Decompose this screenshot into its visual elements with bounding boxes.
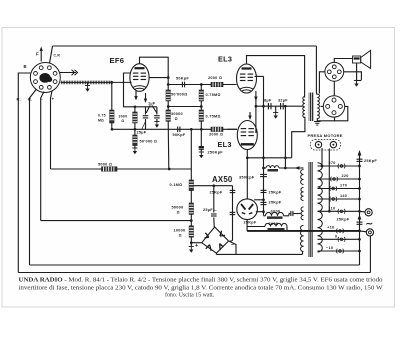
OT secondary bottom to ground <box>316 118 318 121</box>
socket output arrow <box>60 72 76 74</box>
wire R pin 2 down (minus) <box>41 92 44 221</box>
svg-text:8µF: 8µF <box>264 99 272 103</box>
junction anode/50000 <box>167 83 170 86</box>
EL3 lower grid wire <box>228 128 238 130</box>
tap 0 <box>318 238 360 240</box>
ground 1uF <box>154 121 159 123</box>
tube EL3 lower <box>237 121 257 150</box>
wire field row left <box>264 167 267 169</box>
svg-text:EL3: EL3 <box>218 55 232 64</box>
junction rail <box>255 105 258 108</box>
chain wire 3 <box>190 214 192 225</box>
svg-text:Ω: Ω <box>175 117 178 121</box>
wire AX50 right upper <box>254 199 263 201</box>
svg-text:EF6: EF6 <box>110 56 125 65</box>
PT primary seg2 <box>301 187 304 191</box>
resistor chain top <box>190 129 192 180</box>
resistor 50000 ohm cathode <box>134 129 136 135</box>
wire bus C bottom <box>18 272 370 274</box>
chain wire 4 <box>190 237 192 246</box>
wire B pin left <box>18 73 31 273</box>
svg-text:3000: 3000 <box>119 115 128 119</box>
wire bus B bottom <box>30 264 360 266</box>
wire EF6 grid (shielded lead) <box>61 81 132 83</box>
svg-text:140: 140 <box>340 194 347 198</box>
EF6 anode top cap <box>140 57 169 84</box>
junction field row <box>262 167 265 170</box>
socket P1 (pickup/mains socket) <box>30 63 60 93</box>
socket speaker <box>325 62 344 81</box>
junction HT/32uF <box>284 156 287 159</box>
wire bridge plus <box>191 242 201 244</box>
wire between sockets <box>333 81 335 95</box>
field socket right wire <box>335 106 348 120</box>
junction presa wire 1 <box>321 165 324 168</box>
svg-text:1µF: 1µF <box>148 102 156 106</box>
electrolytic 25uF ax <box>213 186 215 213</box>
svg-text:−10: −10 <box>326 246 333 250</box>
resistor 5000 ohm <box>102 167 118 171</box>
svg-text:B: B <box>24 64 27 69</box>
svg-text:0.75MΩ: 0.75MΩ <box>206 93 221 97</box>
horn <box>361 50 371 68</box>
ground OT <box>314 121 320 123</box>
wire plus pin down <box>51 91 53 169</box>
capacitor 25KpF axB <box>230 211 236 213</box>
svg-text:Ω: Ω <box>177 210 180 214</box>
resistor 50000 ohm divider <box>167 85 169 91</box>
resistor 2000 ohm lower <box>211 127 223 131</box>
junction bus/250K <box>200 128 203 131</box>
junction grid node <box>110 81 113 84</box>
socket field coil <box>323 96 344 117</box>
resistor 0.75M upper <box>200 85 202 91</box>
wire ax left col <box>232 186 234 241</box>
tube AX50 <box>237 199 258 220</box>
wire cap to PT <box>297 213 301 215</box>
resistor 30000 ohm <box>167 107 169 111</box>
wire rail <box>256 105 303 107</box>
svg-text:25µF: 25µF <box>137 131 147 135</box>
tap 270 <box>318 165 360 167</box>
wire 32uF drop <box>284 106 286 168</box>
svg-text:0.75MΩ: 0.75MΩ <box>206 115 221 119</box>
wire ax left row <box>191 185 232 187</box>
svg-text:30000: 30000 <box>171 112 183 116</box>
1uF pointer <box>152 106 157 114</box>
wire PT bottom left <box>302 252 304 255</box>
svg-text:110: 110 <box>329 207 336 211</box>
wire AX50 right lower <box>256 211 264 213</box>
ground chain <box>189 246 194 248</box>
svg-text:25KpF: 25KpF <box>337 218 350 222</box>
capacitor to PT <box>290 211 292 216</box>
field socket left wire <box>321 105 324 107</box>
choke drop <box>286 227 288 231</box>
capacitor 350KpF <box>260 173 267 175</box>
wire bridge bottom bus <box>216 253 302 255</box>
svg-text:C.R: C.R <box>54 54 61 58</box>
wire bridge minus <box>229 241 236 254</box>
horn driver box <box>353 56 361 63</box>
junction presa wire 2 <box>328 210 331 213</box>
horn ground drop <box>356 63 358 81</box>
contact +10 <box>339 230 342 233</box>
horn ground drop 2 <box>357 80 362 82</box>
svg-text:270: 270 <box>329 161 336 165</box>
wire plus row <box>51 168 102 170</box>
svg-text:50'000Ω: 50'000Ω <box>171 93 187 97</box>
EL3 upper under arrow <box>254 97 257 102</box>
svg-text:AX50: AX50 <box>212 175 233 184</box>
tap &#8722;10 <box>318 250 360 252</box>
svg-text:25KpF: 25KpF <box>210 191 223 195</box>
junction divider mid <box>167 105 170 108</box>
wire EL3 lower bottom <box>246 150 248 158</box>
ground speaker <box>354 80 359 82</box>
jack lower bus wire <box>360 230 367 233</box>
wire grid bus <box>111 128 237 130</box>
wire AX50 bottom <box>246 220 248 231</box>
speaker socket left wire <box>319 72 325 94</box>
jack upper <box>360 210 366 213</box>
wire minus bus <box>41 220 192 222</box>
PT primary seg4 <box>301 225 304 230</box>
capacitor 50KpF lower <box>177 127 179 133</box>
power transformer core <box>308 162 312 257</box>
ground between caps <box>275 106 277 112</box>
svg-text:5000 Ω: 5000 Ω <box>98 163 112 167</box>
svg-text:50KpF: 50KpF <box>176 77 189 81</box>
svg-text:25KpF: 25KpF <box>244 221 257 225</box>
svg-text:0: 0 <box>335 235 337 239</box>
resistor 0.75M lower <box>200 107 202 111</box>
svg-text:+10: +10 <box>327 225 335 230</box>
wire bridge bottom stub <box>215 253 217 254</box>
output transformer primary <box>303 97 305 101</box>
junction 32uF drop <box>284 105 287 108</box>
EL3 screen wire <box>255 75 264 77</box>
svg-text:+: + <box>52 97 55 102</box>
wire B+ column <box>263 76 265 215</box>
junction B+ column top <box>262 105 265 108</box>
EF6 under-tube lead 2 <box>145 93 147 100</box>
wire HT to OT primary <box>292 117 305 158</box>
junction minus bus <box>190 219 193 222</box>
capacitor 25KpF axA <box>230 189 236 191</box>
ground 50000 <box>132 147 137 149</box>
svg-text:50KpF: 50KpF <box>173 133 186 137</box>
EF6 under-tube lead 1 <box>135 91 137 97</box>
svg-text:+: + <box>195 243 198 249</box>
wire top rail drop to output transformer <box>315 46 317 94</box>
wire HT row <box>247 157 291 159</box>
svg-text:25KpF: 25KpF <box>269 191 282 195</box>
wire anode row <box>168 84 236 86</box>
svg-text:fono. Uscita 15 watt.: fono. Uscita 15 watt. <box>165 291 215 298</box>
svg-text:25KpF: 25KpF <box>364 159 377 163</box>
wire EF6 cathode <box>124 73 158 107</box>
wire AX50 to choke <box>247 226 265 228</box>
svg-text:0.75: 0.75 <box>98 114 106 118</box>
svg-text:EL3: EL3 <box>218 140 232 149</box>
wire EF6 grid leak drop B <box>111 82 113 110</box>
svg-text:25KpF: 25KpF <box>269 201 282 205</box>
wire R pin 1 down <box>30 89 37 265</box>
svg-text:F: F <box>36 52 39 57</box>
output transformer core <box>309 93 314 122</box>
speaker socket top wire <box>334 59 352 63</box>
heater bus thick <box>247 230 359 232</box>
svg-text:Ω: Ω <box>179 233 182 237</box>
EL3 parallel bus <box>255 91 257 133</box>
capacitor 250KpF <box>200 129 202 146</box>
junction bus/chain <box>190 128 193 131</box>
svg-text:invertitore di fase, tensione: invertitore di fase, tensione placca 230… <box>19 284 384 291</box>
arrow to PT primary <box>295 166 300 170</box>
field coil bumps <box>266 166 270 168</box>
svg-text:32µF: 32µF <box>278 99 288 103</box>
wire 3000 top <box>134 107 136 112</box>
capacitor 1uF <box>156 107 158 115</box>
OT secondary top wire <box>315 94 318 95</box>
svg-text:Ω: Ω <box>122 119 125 123</box>
svg-text:25µF—: 25µF— <box>203 208 217 212</box>
capacitor 50KpF upper <box>181 82 183 88</box>
capacitor 25KpF mid right <box>357 221 363 223</box>
presa wire 2 <box>328 149 330 212</box>
svg-text:170: 170 <box>340 184 347 188</box>
tap 170 <box>318 188 360 190</box>
capacitor 32uF <box>280 103 282 109</box>
tap 220 <box>318 178 360 180</box>
svg-text:220: 220 <box>342 174 349 178</box>
wire AX50 cathode riser <box>246 158 248 199</box>
svg-text:50'000 Ω: 50'000 Ω <box>140 140 158 144</box>
svg-text:UNDA RADIO - Mod. R. 84/1 - Te: UNDA RADIO - Mod. R. 84/1 - Telaio R. 4/… <box>19 277 383 284</box>
junction plus corner <box>190 241 193 244</box>
right bus top arrow <box>359 154 361 163</box>
wire field row right <box>279 167 301 169</box>
svg-text:6000: 6000 <box>269 221 279 226</box>
field socket bottom wire <box>317 117 334 121</box>
wire ax col to bridge <box>230 241 233 242</box>
svg-text:10000: 10000 <box>174 229 186 233</box>
wire divider mid row <box>168 106 201 108</box>
ground 250KpF <box>199 151 204 153</box>
junction ax row/25uF <box>212 184 215 187</box>
choke 0000 bumps <box>265 223 271 226</box>
junction bus/3000 <box>134 128 137 131</box>
EF6 screen wire <box>149 77 168 79</box>
svg-text:2000 Ω: 2000 Ω <box>209 133 223 137</box>
svg-text:250KpF: 250KpF <box>208 151 224 155</box>
capacitor 25KpF top right <box>357 158 363 160</box>
PT primary seg3 <box>301 207 303 211</box>
junction HT/EL3 <box>246 156 249 159</box>
svg-text:MΩ: MΩ <box>98 119 104 123</box>
capacitor 8uF <box>267 103 269 109</box>
svg-text:2000 Ω: 2000 Ω <box>208 76 222 80</box>
junction plus/30000 <box>168 168 171 171</box>
resistor 10000 chain <box>189 226 193 237</box>
resistor 2000 ohm upper <box>211 82 223 86</box>
wire 3000 bottom <box>134 123 136 129</box>
resistor 50000 chain <box>189 203 193 214</box>
resistor 0.1M <box>189 180 193 191</box>
resistor 3000 ohm <box>133 112 137 123</box>
wire top rail <box>53 45 317 47</box>
EL3 upper anode to OT <box>247 56 305 98</box>
capacitor 25KpF col1 <box>261 189 267 191</box>
arrow on right bus <box>358 215 362 220</box>
wire plus row cont <box>117 168 191 170</box>
junction field/32uF <box>284 167 287 170</box>
ground under grid lead <box>87 82 89 85</box>
pin F arrow <box>40 50 42 62</box>
svg-text:0.1MΩ: 0.1MΩ <box>170 183 183 187</box>
tap 110 <box>318 210 360 212</box>
PT seg1 top wire <box>301 167 304 169</box>
svg-text:350KpF: 350KpF <box>239 176 255 180</box>
presa motore outline <box>311 140 341 151</box>
speaker socket right wire <box>344 72 362 80</box>
capacitor 25KpF col2 <box>261 201 267 203</box>
wire under 0.75M <box>111 123 113 129</box>
EL3 lower top arrow <box>249 112 251 117</box>
bridge rectifier <box>202 227 229 253</box>
tap 140 <box>318 198 360 200</box>
svg-text:PRESA MOTORE: PRESA MOTORE <box>308 133 343 138</box>
junction cathode/3000 <box>134 105 137 108</box>
junction HT/B+ column <box>262 156 265 159</box>
PT primary seg1 <box>301 170 304 175</box>
junction heater bus right <box>358 230 361 233</box>
junction anode/075 <box>200 83 203 86</box>
junction 075 mid <box>200 105 203 108</box>
svg-text:∼: ∼ <box>366 219 374 229</box>
tube EF6 <box>130 64 149 92</box>
capacitor 25uF <box>145 107 147 115</box>
wire C.R pin to top rail <box>50 46 53 64</box>
chain wire 2 <box>190 191 192 204</box>
wire bus B riser <box>359 154 361 266</box>
presa motore socket 1 <box>315 141 321 147</box>
presa motore socket 2 <box>330 141 336 147</box>
resistor 0.75 Mohm input <box>110 110 114 123</box>
junction bus/0.75M <box>111 128 114 131</box>
choke 6000 <box>264 215 266 217</box>
output transformer secondary <box>317 94 319 98</box>
jack lower drop <box>369 236 371 273</box>
jack lower <box>366 229 373 236</box>
tube EL3 upper <box>237 64 257 93</box>
presa wire 1 <box>321 148 323 166</box>
PT secondary <box>318 163 323 171</box>
svg-text:50000: 50000 <box>172 206 184 210</box>
